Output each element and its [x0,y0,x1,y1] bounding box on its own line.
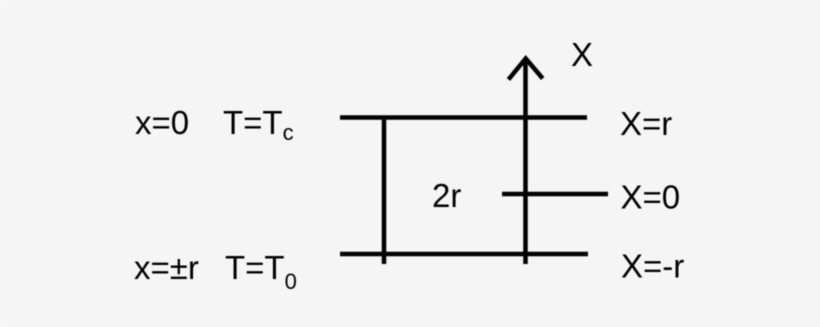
wire middle X=0 line [502,192,608,197]
svg-text:X=0: X=0 [621,179,681,216]
svg-text:X=r: X=r [620,105,672,142]
svg-text:X=-r: X=-r [621,248,684,285]
svg-text:X: X [571,36,593,73]
svg-text:x=±r: x=±r [134,249,199,286]
wire left vertical line [382,116,387,264]
node X axis arrowhead [509,59,543,80]
wire bottom boundary line [340,252,588,257]
svg-text:x=0: x=0 [135,104,189,141]
svg-text:2r: 2r [432,177,461,214]
wire X axis shaft [523,60,528,264]
wire top boundary line [340,115,587,120]
